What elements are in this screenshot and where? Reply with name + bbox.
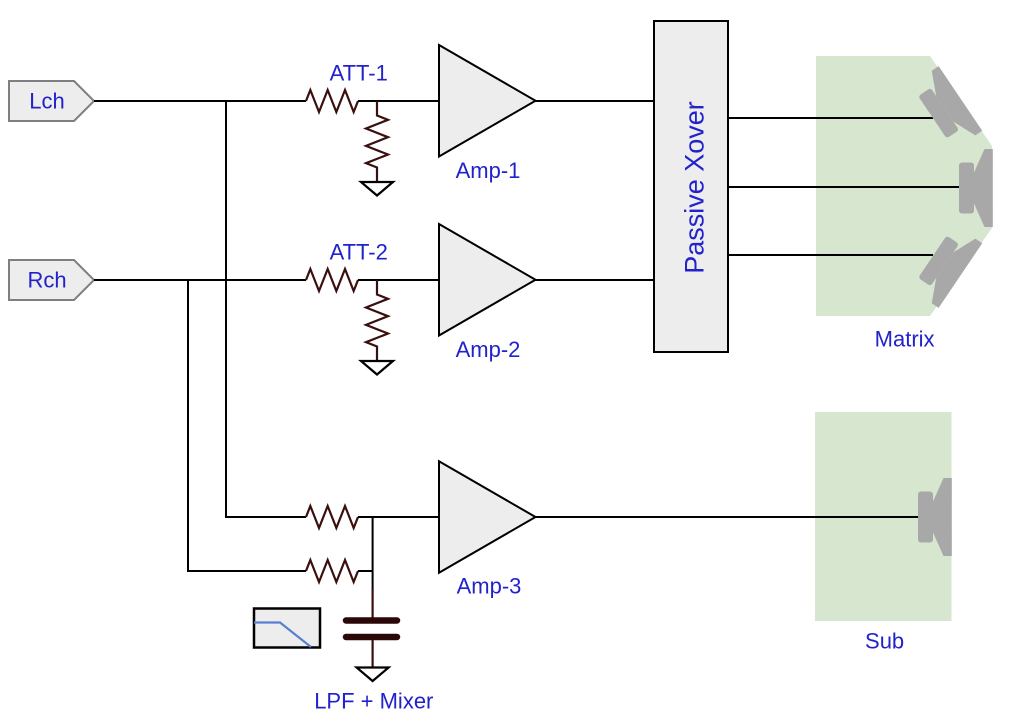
ground for ATT-2 [361,361,393,375]
wire Amp-3 to sub [536,516,919,518]
svg-text:Passive Xover: Passive Xover [680,101,710,274]
mixer resistor row B [306,560,358,582]
resistor ATT-1 series [306,90,358,112]
wire row B stub to sum node [358,570,373,572]
mixer resistor row A [306,506,358,528]
wire xover output bottom [728,254,933,256]
svg-text:Amp-2: Amp-2 [456,337,521,362]
svg-text:Amp-1: Amp-1 [456,158,521,183]
passive crossover box U1 [654,21,728,352]
speaker driver middle [959,149,993,227]
capacitor C1 [346,621,397,638]
resistor ATT-2 shunt [366,280,388,362]
svg-text:Sub: Sub [865,628,904,653]
resistor ATT-1 shunt [366,101,388,183]
op-amp Amp-1 [439,45,536,157]
ground for mixer [357,668,389,682]
wire xover output mid [728,186,959,188]
svg-text:ATT-1: ATT-1 [330,60,388,85]
wire sum node to Amp-3 [358,516,439,518]
input flag Lch [9,81,94,121]
resistor ATT-2 series [306,269,358,291]
capacitor C1 lower lead [372,640,374,668]
svg-text:Amp-3: Amp-3 [457,573,522,598]
op-amp Amp-3 [439,461,536,573]
wire Lch to ATT-1 [94,100,306,102]
svg-text:Matrix: Matrix [875,327,935,352]
svg-text:Lch: Lch [29,89,64,114]
svg-text:ATT-2: ATT-2 [330,239,388,264]
ground for ATT-1 [361,182,393,196]
matrix speaker cabinet [816,56,992,316]
wire ATT-1 to Amp-1 [358,100,439,102]
wire ATT-2 to Amp-2 [358,279,439,281]
svg-text:Rch: Rch [27,268,66,293]
wire Rch to ATT-2 [94,279,306,281]
wire sum node vertical [372,517,374,590]
speaker driver top [911,66,983,150]
op-amp Amp-2 [439,224,536,336]
sub speaker cabinet [815,412,952,621]
speaker driver sub [918,478,952,556]
LPF response icon [254,609,320,648]
speaker driver bottom [911,224,983,308]
capacitor C1 lead [372,589,374,618]
wire xover output top [728,117,933,119]
wire Amp-1 to xover [536,100,655,102]
wire Lch branch down to mixer row A [226,101,306,517]
wire Amp-2 to xover [536,279,655,281]
wire Rch branch down to mixer row B [188,280,306,571]
svg-text:LPF + Mixer: LPF + Mixer [314,689,433,714]
input flag Rch [9,260,94,300]
